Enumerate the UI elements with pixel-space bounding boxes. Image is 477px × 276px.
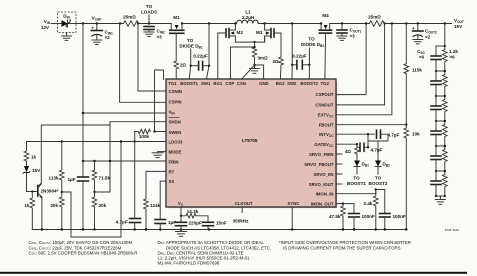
svg-text:TG2: TG2 (321, 81, 330, 86)
capacitor 100nF IMON_OUT (343, 204, 375, 230)
ground 3mohm (250, 65, 260, 73)
svg-text:SHDN: SHDN (169, 120, 181, 125)
svg-text:VCAP: VCAP (92, 16, 103, 22)
wire kelvin to CSNOUT (336, 24, 385, 105)
resistor 25m input current sense (119, 15, 142, 27)
capacitor 220pF VC (176, 216, 202, 230)
wire FBIN row (83, 160, 166, 162)
svg-text:113k: 113k (49, 176, 59, 181)
svg-text:SRVO_IIN: SRVO_IIN (314, 172, 334, 177)
wire input rail to VCAP node (76, 23, 120, 25)
svg-text:3mΩ: 3mΩ (258, 56, 269, 61)
svg-text:BOOST2: BOOST2 (300, 81, 318, 86)
svg-text:M1: M1 (173, 15, 180, 20)
svg-text:1k: 1k (24, 203, 30, 208)
capacitor 4.7uF on LDO33 column (116, 142, 141, 230)
resistor 124k RT (144, 171, 166, 229)
wire zener to base (27, 191, 38, 193)
svg-text:100k: 100k (139, 134, 150, 139)
op-amp U1 LT8705 controller IC body (166, 79, 337, 208)
transistor Q1 2N3904 clamp (38, 184, 59, 198)
svg-text:20k: 20k (50, 203, 58, 208)
svg-text:DB1: DB1 (362, 162, 370, 168)
svg-text:2N3904*: 2N3904* (41, 189, 59, 194)
svg-text:TO: TO (187, 38, 194, 43)
capacitor 4.7uF INTVCC (368, 130, 400, 141)
svg-text:IS DRAWING CURRENT FROM THE SU: IS DRAWING CURRENT FROM THE SUPER CAPACI… (283, 245, 401, 250)
wire kelvin to CSPOUT (336, 24, 366, 95)
svg-text:SW2: SW2 (287, 81, 297, 86)
resistor 4 ohm (345, 144, 359, 160)
resistor 47.5k IMON_OUT (329, 206, 345, 230)
svg-text:IMON_OUT: IMON_OUT (311, 201, 334, 206)
svg-text:124k: 124k (150, 203, 161, 208)
svg-text:TO: TO (308, 37, 315, 42)
diode DIN ideal diode in dashed box (58, 12, 77, 33)
capacitor CSC cell1 (435, 46, 437, 56)
svg-text:1k: 1k (31, 155, 37, 160)
wire SRVO_IOUT stub (336, 183, 342, 185)
resistor 71.5k (92, 160, 110, 192)
wire IMON_OUT row (336, 204, 343, 206)
svg-text:L1: L1 (245, 10, 251, 15)
resistor 2ohm gate M3 (273, 57, 284, 79)
svg-text:+: + (412, 26, 415, 31)
transistor M4 top switch 2 (319, 13, 331, 79)
svg-text:CSNOUT: CSNOUT (315, 103, 334, 108)
node TO LOADS tap (141, 4, 157, 25)
diode DB2 (369, 141, 391, 186)
svg-text:4.7µF: 4.7µF (371, 148, 383, 153)
wire ground bus (32, 229, 407, 231)
svg-text:4.7µF: 4.7µF (388, 133, 400, 138)
svg-text:14.3k: 14.3k (187, 209, 199, 214)
wire M1 gate to 2ohm (175, 33, 177, 61)
svg-text:GND: GND (259, 81, 269, 86)
svg-text:FBOUT: FBOUT (319, 122, 334, 127)
transistor M2 bottom switch 1 (218, 24, 244, 80)
svg-text:×3: ×3 (157, 35, 163, 40)
ground CIN1 (92, 40, 102, 44)
svg-text:0.22µF: 0.22µF (193, 54, 208, 59)
resistor 113k (49, 140, 65, 192)
ground CIN2 (144, 32, 154, 36)
svg-text:CLKOUT: CLKOUT (235, 201, 253, 206)
svg-text:TG1: TG1 (168, 81, 177, 86)
svg-text:CSPIN: CSPIN (169, 99, 182, 104)
svg-text:×3: ×3 (350, 34, 356, 39)
svg-text:350kHz: 350kHz (233, 219, 250, 224)
capacitor 100nF IMON_IN (376, 190, 406, 230)
node SW2 rail junction (263, 22, 265, 24)
wire FBIN L-route to divider junction (95, 125, 111, 192)
svg-text:BG2: BG2 (276, 81, 285, 86)
ground supercap stack (435, 196, 445, 204)
svg-text:SW1: SW1 (201, 81, 211, 86)
node boost2 / wire to BOOST2 pin and DB2 stub (301, 37, 324, 80)
wire kelvin left tap to CSPIN (120, 24, 166, 103)
svg-text:1µF: 1µF (67, 177, 75, 182)
wire L1 to SW2 region (258, 23, 321, 25)
svg-text:M4: M4 (322, 13, 329, 18)
resistor 20k below 71.5k (92, 191, 106, 230)
ground below DIN box (62, 33, 72, 41)
wire SW2 pin drop (291, 22, 293, 24)
diode 15V zener (23, 166, 41, 192)
svg-text:RT: RT (169, 169, 175, 174)
wire supercap stack top (444, 24, 446, 47)
capacitor 1uF FBIN (67, 161, 88, 230)
svg-text:SS: SS (169, 179, 175, 184)
svg-text:100nF: 100nF (362, 214, 375, 219)
svg-text:25mΩ: 25mΩ (368, 15, 381, 20)
svg-text:IMON_IN: IMON_IN (316, 192, 334, 197)
svg-text:12V: 12V (41, 25, 50, 30)
ground COUT2 (413, 40, 423, 44)
wire rail to TO LOADS node (138, 23, 171, 25)
wire SWEN riser (155, 70, 164, 132)
svg-text:SRVO_FBOUT: SRVO_FBOUT (304, 162, 334, 167)
svg-text:2.2µH: 2.2µH (242, 15, 255, 20)
resistor 1k clamp top (24, 142, 36, 167)
wire 3mohm to GND pin (255, 65, 264, 79)
svg-text:15V: 15V (32, 168, 41, 173)
capacitor 0.22uF boost1 (191, 54, 209, 71)
svg-text:71.5k: 71.5k (99, 176, 111, 181)
svg-text:2Ω: 2Ω (273, 59, 280, 64)
svg-text:TO: TO (146, 4, 153, 9)
svg-text:4.7µF: 4.7µF (116, 220, 128, 225)
svg-text:CSNIN: CSNIN (169, 89, 182, 94)
svg-text:220pF: 220pF (189, 221, 202, 226)
svg-text:+: + (91, 26, 94, 31)
wire kelvin right tap to CSNIN (138, 24, 166, 92)
svg-text:BOOST1: BOOST1 (347, 181, 366, 186)
wire SRVO_FBOUT stub (336, 163, 342, 165)
svg-text:DIN: DIN (63, 14, 70, 20)
svg-text:15nF: 15nF (216, 221, 227, 226)
node SW1 rail junction (234, 22, 236, 24)
note capacitor values left column (29, 240, 138, 255)
svg-text:10k: 10k (412, 132, 420, 137)
ground MODE pin (152, 152, 166, 158)
svg-text:20k: 20k (99, 203, 107, 208)
svg-text:×2: ×2 (105, 35, 111, 40)
wire INTVCC row (336, 133, 375, 135)
resistor 20k below 113k (50, 191, 64, 230)
capacitor 15nF VC series (203, 221, 227, 230)
svg-text:BOOST1: BOOST1 (180, 81, 198, 86)
svg-text:CSP: CSP (225, 81, 234, 86)
wire SYNC to ground bus (291, 207, 293, 230)
svg-text:2Ω: 2Ω (180, 63, 187, 68)
svg-text:BG1: BG1 (213, 81, 222, 86)
svg-text:8705 TA10: 8705 TA10 (445, 228, 460, 232)
svg-text:CSC: 60F, 2.5V COOPER BUSSMAN: CSC: 60F, 2.5V COOPER BUSSMAN HB1840-2R5… (29, 250, 138, 255)
svg-text:M2: M2 (237, 30, 244, 35)
wire SW1 pin drop (208, 22, 210, 24)
wire LDO33 distribution (27, 141, 167, 143)
node boost1 / wire to BOOST1 pin and DB1 stub (179, 38, 202, 79)
capacitor 4.7uF GATEVCC (357, 143, 383, 152)
wire rail to VOUT (385, 23, 452, 25)
svg-text:BOOST2: BOOST2 (369, 181, 388, 186)
capacitor COUT1 x3 (337, 22, 362, 38)
svg-text:DIODE DB2: DIODE DB2 (301, 42, 324, 48)
inductor L1 2.2uH (237, 10, 259, 24)
node VOUT terminal (444, 22, 446, 24)
svg-text:1.2k: 1.2k (449, 49, 458, 54)
svg-text:2.4k: 2.4k (364, 201, 373, 206)
wire CSP kelvin (231, 47, 255, 79)
svg-text:M3: M3 (256, 30, 263, 35)
wire emitter to bus (41, 198, 43, 230)
wire IMON_IN row (336, 190, 376, 194)
svg-text:×2: ×2 (425, 35, 431, 40)
capacitor CIN1 polarized x2 (91, 24, 113, 41)
svg-text:TO: TO (375, 176, 382, 181)
svg-text:100nF: 100nF (393, 214, 406, 219)
svg-text:×6: ×6 (419, 55, 425, 60)
resistor 3mohm source sense (252, 42, 268, 66)
svg-text:SYNC: SYNC (288, 201, 300, 206)
svg-text:M1-M4: FAIRCHILD FDMS7698: M1-M4: FAIRCHILD FDMS7698 (158, 261, 220, 266)
svg-text:CSPOUT: CSPOUT (316, 92, 334, 97)
resistor 115k feedback top (404, 22, 422, 124)
svg-text:DB2: DB2 (383, 162, 391, 168)
capacitor 0.22uF boost2 (292, 54, 309, 70)
svg-text:47.5k: 47.5k (329, 214, 341, 219)
svg-text:LOADS: LOADS (141, 10, 157, 15)
capacitor 1uF SS (155, 181, 176, 229)
wire cell1 top rung (436, 45, 445, 47)
svg-text:SRVO_FBIN: SRVO_FBIN (309, 152, 334, 157)
diode DB1 (347, 161, 369, 187)
wire under-route from divider junction (62, 142, 121, 238)
wire VIN pin (83, 112, 166, 114)
resistor 1k base bleed (24, 190, 34, 229)
wire VIN to DIN box (51, 23, 58, 25)
wire CSN kelvin (242, 65, 255, 79)
svg-text:FBIN: FBIN (169, 159, 179, 164)
svg-text:SWEN: SWEN (169, 130, 182, 135)
capacitor COUT2 polarized x2 (412, 22, 437, 39)
wire CLKOUT stub (241, 207, 243, 213)
svg-text:4Ω: 4Ω (345, 149, 352, 154)
wire EXTVCC to output rail (391, 22, 393, 24)
svg-text:115k: 115k (412, 68, 422, 73)
wire M4 to output rail (330, 23, 370, 25)
svg-text:SRVO_IOUT: SRVO_IOUT (309, 182, 334, 187)
svg-text:LT8705: LT8705 (242, 138, 258, 143)
note diode and inductor values right column (158, 240, 272, 265)
resistor 2ohm gate M1 (174, 61, 187, 79)
svg-text:0.22µF: 0.22µF (292, 54, 307, 59)
svg-text:25mΩ: 25mΩ (123, 15, 136, 20)
resistor 100k SWEN pull-up (134, 129, 167, 143)
wire SRVO_IIN stub (336, 173, 342, 175)
resistor 2.4k IMON_IN (364, 190, 379, 230)
svg-text:CSN: CSN (237, 81, 246, 86)
svg-text:×6: ×6 (450, 55, 456, 60)
resistor 10k feedback bottom (404, 125, 420, 230)
ground main bus (176, 230, 187, 237)
node VCAP (82, 22, 84, 24)
transistor M3 bottom switch 2 (256, 24, 281, 58)
resistor 14.3k VC series (181, 209, 208, 222)
wire M2/M3 source join (235, 36, 264, 42)
capacitor CIN2 x3 (144, 27, 165, 40)
svg-text:15V: 15V (454, 24, 463, 29)
svg-text:TO: TO (353, 176, 360, 181)
wire SRVO_FBIN stub (336, 153, 342, 155)
svg-text:LDO33: LDO33 (169, 140, 183, 145)
wire SHDN to clamp collector (38, 122, 166, 187)
transistor M1 top buck NMOS (170, 15, 184, 33)
wire cell1 bottom rung (436, 70, 445, 72)
resistor 1.2k cell1 (443, 46, 448, 71)
wire INTVCC drop (367, 134, 369, 147)
resistor 25m output current sense (365, 15, 388, 27)
wire rail M1 source to SW1/L1 (182, 23, 237, 25)
footer rule bar (0, 272, 467, 274)
wire VCAP feed down left side (82, 24, 84, 162)
svg-text:MODE: MODE (169, 150, 182, 155)
ground COUT1 (337, 36, 347, 40)
note input overvoltage protection (279, 240, 411, 250)
wire FBOUT to divider (336, 123, 406, 126)
wire GATEVCC row (336, 143, 357, 145)
wire VC pin stub (180, 207, 182, 216)
